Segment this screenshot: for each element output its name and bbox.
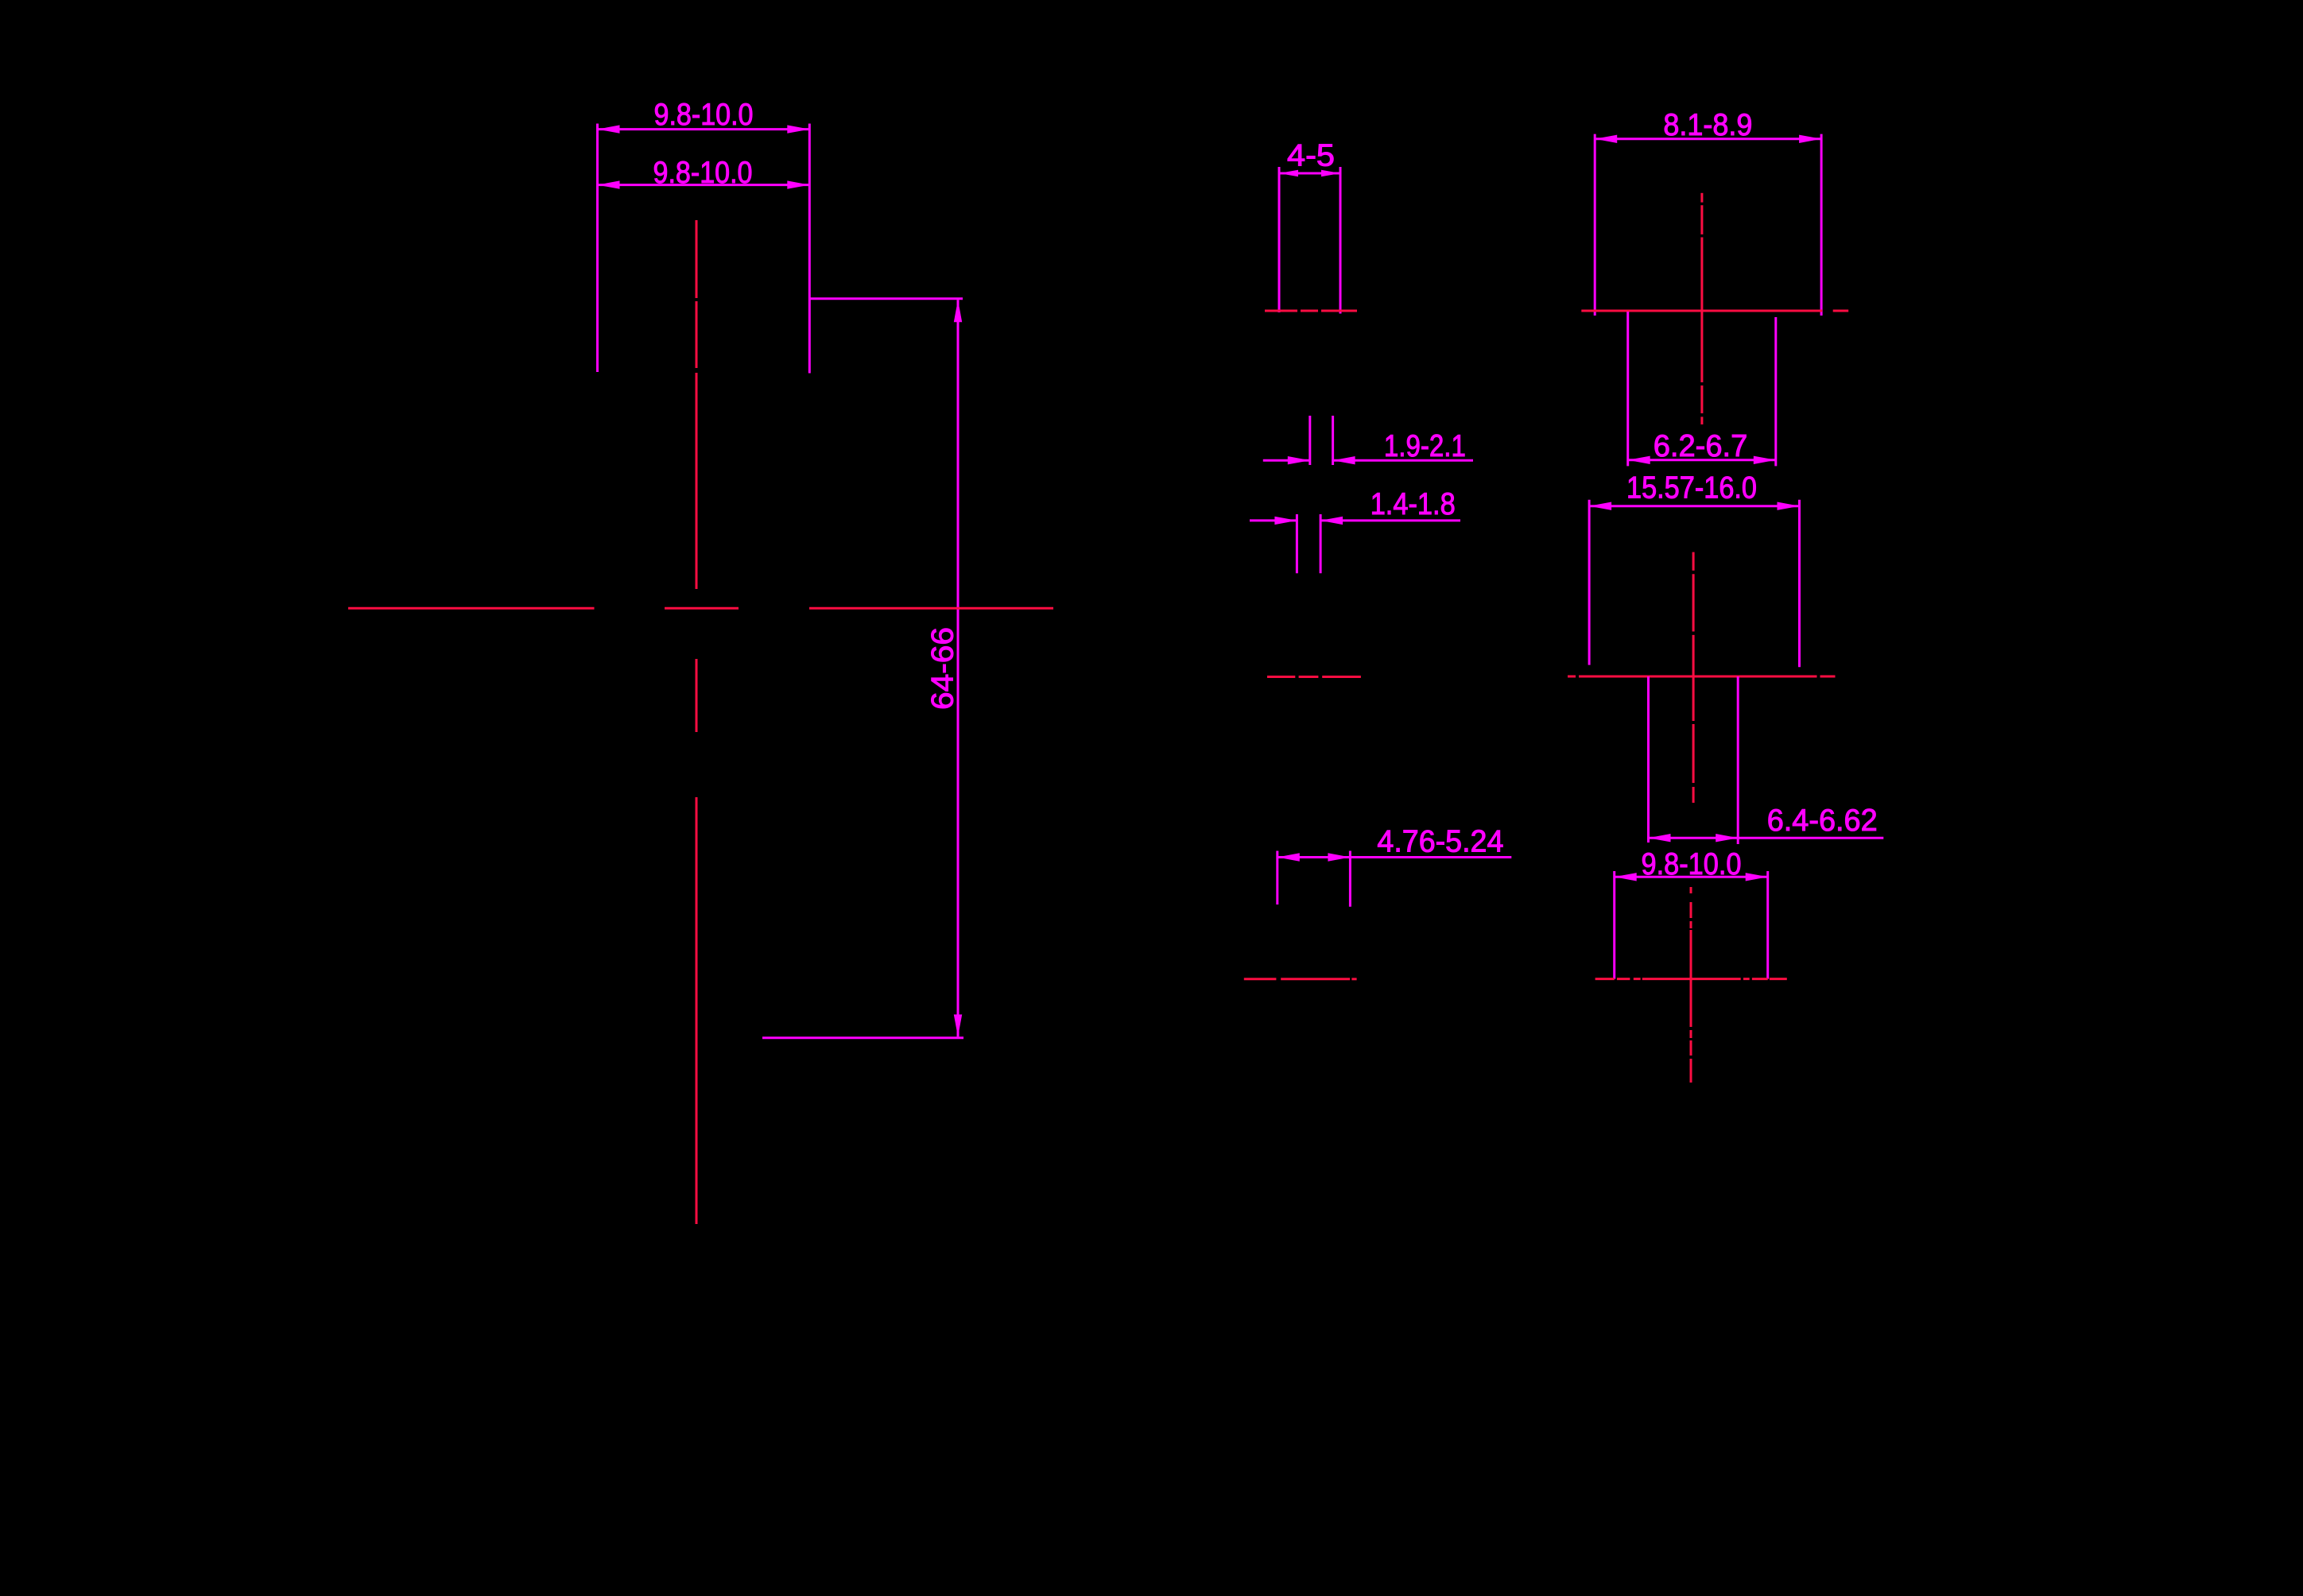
left view: vertical centerline (red, dash-dot) bbox=[696, 220, 698, 1224]
base view: dimension text 15.57-16.0 bbox=[1626, 471, 1757, 505]
bottom view: red vertical centerline (dash-dot) bbox=[1690, 887, 1692, 1083]
side view: extension line left of 1.4-1.8 dim bbox=[1296, 514, 1298, 573]
svg-text:9.8-10.0: 9.8-10.0 bbox=[654, 98, 754, 132]
side view: extension line left of 4.76-5.24 dim bbox=[1276, 851, 1278, 905]
svg-text:9.8-10.0: 9.8-10.0 bbox=[653, 156, 753, 190]
bottom view: dimension line 9.8-10.0 with arrowheads bbox=[1615, 873, 1768, 881]
left view: horizontal centerline (red, dash-dot) bbox=[348, 607, 1053, 610]
svg-text:8.1-8.9: 8.1-8.9 bbox=[1663, 108, 1752, 142]
side view: dimension text 4-5 bbox=[1287, 139, 1335, 173]
side view: dimension text 1.9-2.1 bbox=[1384, 429, 1466, 463]
svg-text:4.76-5.24: 4.76-5.24 bbox=[1377, 825, 1503, 859]
side view: dimension line 4.76-5.24 with arrowheads and leader bbox=[1278, 853, 1512, 861]
left view: extension line right of 9.8-10.0 dims bbox=[808, 124, 811, 374]
left view: dimension text 9.8-10.0 (upper) bbox=[654, 98, 754, 132]
svg-text:1.4-1.8: 1.4-1.8 bbox=[1371, 487, 1456, 521]
left view: 64-66 bottom reference line bbox=[762, 1036, 963, 1039]
top view: dimension line 8.1-8.9 with arrowheads bbox=[1595, 135, 1821, 143]
left view: dimension line 9.8-10.0 (upper) with arrowheads bbox=[598, 125, 810, 133]
left view: dimension text 9.8-10.0 (lower) bbox=[653, 156, 753, 190]
top view: red vertical centerline (upper knob) bbox=[1700, 193, 1703, 424]
base view: stem extension line right (6.4-6.62) bbox=[1737, 676, 1739, 844]
left view: dimension text 64-66 (rotated) bbox=[926, 627, 960, 710]
base view: extension line left of 15.57-16.0 dim bbox=[1588, 500, 1591, 665]
bottom view: red horizontal centerline (dash-dot) bbox=[1595, 978, 1787, 980]
left view: dimension line 9.8-10.0 (lower) with arrowheads bbox=[598, 180, 810, 188]
top view: extension line right of 6.2-6.7 dim bbox=[1774, 317, 1777, 466]
svg-text:15.57-16.0: 15.57-16.0 bbox=[1626, 471, 1757, 505]
svg-text:6.4-6.62: 6.4-6.62 bbox=[1767, 804, 1878, 838]
side view: extension line right of 1.9-2.1 dim bbox=[1332, 416, 1334, 465]
base view: extension line right of 15.57-16.0 dim bbox=[1798, 500, 1801, 667]
side view: extension line right of 4-5 dim bbox=[1340, 167, 1342, 314]
side view: red dashed base line under 4-5 bbox=[1265, 310, 1357, 312]
svg-text:6.2-6.7: 6.2-6.7 bbox=[1654, 429, 1748, 463]
side view: dimension text 1.4-1.8 bbox=[1371, 487, 1456, 521]
side view: extension line right of 1.4-1.8 dim bbox=[1320, 514, 1322, 573]
side view: extension line right of 4.76-5.24 dim bbox=[1349, 851, 1351, 907]
bottom view: extension line right of 9.8-10.0 dim bbox=[1766, 871, 1769, 979]
base view: dimension line 15.57-16.0 with arrowheads bbox=[1589, 502, 1799, 510]
top view: dimension text 8.1-8.9 bbox=[1663, 108, 1752, 142]
top view: dimension text 6.2-6.7 bbox=[1654, 429, 1748, 463]
left view: vertical dimension line 64-66 with arrowheads bbox=[954, 300, 962, 1036]
top view: extension line right of 8.1-8.9 dim bbox=[1820, 134, 1823, 316]
svg-text:9.8-10.0: 9.8-10.0 bbox=[1642, 847, 1742, 881]
side view: dimension line 1.4-1.8 with outside arrowheads bbox=[1250, 517, 1460, 525]
side view: dimension text 4.76-5.24 bbox=[1377, 825, 1503, 859]
top view: red base line (knob top) bbox=[1581, 310, 1848, 312]
side view: extension line left of 4-5 dim bbox=[1278, 167, 1281, 312]
base view: dimension line 6.4-6.62 with arrowheads and leader bbox=[1649, 834, 1884, 842]
side view: dimension line 1.9-2.1 with outside arrowheads bbox=[1263, 456, 1473, 464]
bottom view: dimension text 9.8-10.0 bbox=[1642, 847, 1742, 881]
top view: dimension line 6.2-6.7 with arrowheads bbox=[1628, 456, 1776, 464]
left view: extension line left of 9.8-10.0 dims bbox=[596, 124, 599, 373]
base view: red vertical centerline bbox=[1692, 552, 1695, 803]
base view: red base line bbox=[1568, 676, 1836, 678]
side view: red dashed bottom base line bbox=[1244, 978, 1357, 980]
side view: dimension line 4-5 with arrowheads bbox=[1279, 170, 1340, 176]
svg-text:1.9-2.1: 1.9-2.1 bbox=[1384, 429, 1466, 463]
base view: dimension text 6.4-6.62 bbox=[1767, 804, 1878, 838]
left view: 64-66 top reference line bbox=[809, 297, 963, 300]
top view: extension line left of 8.1-8.9 dim bbox=[1594, 134, 1596, 316]
base view: stem extension line left (6.4-6.62) bbox=[1647, 676, 1650, 843]
side view: red dashed mid base line bbox=[1267, 676, 1361, 678]
bottom view: extension line left of 9.8-10.0 dim bbox=[1613, 871, 1615, 979]
svg-text:4-5: 4-5 bbox=[1287, 139, 1335, 173]
top view: extension line left of 6.2-6.7 dim bbox=[1626, 312, 1629, 466]
svg-text:64-66: 64-66 bbox=[926, 627, 960, 710]
side view: extension line left of 1.9-2.1 dim bbox=[1309, 416, 1311, 465]
